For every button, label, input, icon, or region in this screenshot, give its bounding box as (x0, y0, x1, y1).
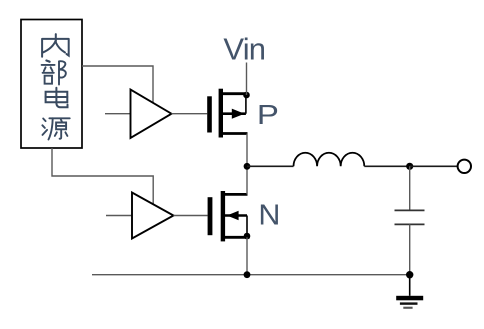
wire: ground rail (92, 274, 410, 276)
svg-text:N: N (258, 199, 280, 231)
capacitor C1 (395, 210, 425, 224)
wire: output node to terminal (410, 165, 458, 167)
block: internal power supply box (内部电源) (21, 20, 82, 149)
label 内 (inner) (42, 34, 69, 57)
Q1 body lead with arrow (223, 112, 246, 115)
wire: box right edge to upper driver enable (82, 66, 153, 104)
Q2 channel bar (221, 191, 225, 241)
Q1 gate bar (207, 96, 212, 132)
label P (257, 100, 279, 130)
wire: capacitor to ground rail (409, 224, 411, 274)
inductor L1 (294, 153, 365, 167)
transistor Q1 PMOS (207, 89, 250, 138)
svg-text:P: P (257, 100, 279, 130)
wire: lower driver output to NMOS gate (174, 215, 208, 217)
Q2 drain lead (top) (225, 193, 248, 196)
wire: lower driver input stub (106, 215, 132, 217)
wire: Vin to PMOS drain (246, 63, 248, 96)
label N (258, 199, 280, 231)
wire: upper driver input stub (105, 113, 131, 115)
Q2 body lead with arrow (225, 214, 247, 217)
junction dot: body/source tie (244, 233, 251, 240)
node: output junction dot (406, 163, 413, 170)
wire: switch node up to NMOS drain (246, 166, 248, 194)
Q2 body-to-source tie (246, 216, 248, 237)
node: switch node junction dot (244, 163, 251, 170)
buffer driver A2 (lower) (132, 193, 174, 239)
Q2 gate bar (208, 197, 213, 235)
Q1 body-to-drain tie (245, 95, 247, 114)
junction dot: Vin/drain/body (243, 92, 250, 99)
transistor Q2 NMOS (208, 191, 251, 241)
wire: PMOS source down to switch node (246, 134, 248, 167)
wire: box bottom to lower driver enable (52, 148, 153, 205)
terminal: output port circle (458, 160, 471, 173)
ground (396, 296, 423, 309)
Q1 channel bar (219, 89, 223, 138)
wire: NMOS source down to ground rail (246, 237, 248, 274)
wire: rail to ground symbol (409, 275, 411, 296)
Q2 source lead (bottom) (225, 236, 250, 239)
wire: upper driver output to PMOS gate (172, 113, 208, 115)
label Vin (223, 32, 265, 67)
wire: switch node to inductor (247, 165, 294, 167)
wire: output node down to capacitor (409, 166, 411, 210)
svg-text:Vin: Vin (223, 32, 265, 67)
Q1 source lead (bottom) (223, 132, 248, 135)
label 部 (part) (42, 61, 66, 85)
wire: inductor to output node (364, 165, 409, 167)
node: NMOS source rail junction dot (244, 271, 251, 278)
Q1 drain lead (top) (223, 92, 247, 95)
label 电 (electric) (46, 88, 68, 108)
buffer driver A1 (upper) (131, 90, 172, 139)
label 源 (source) (42, 118, 69, 139)
node: ground rail junction dot (406, 271, 413, 278)
